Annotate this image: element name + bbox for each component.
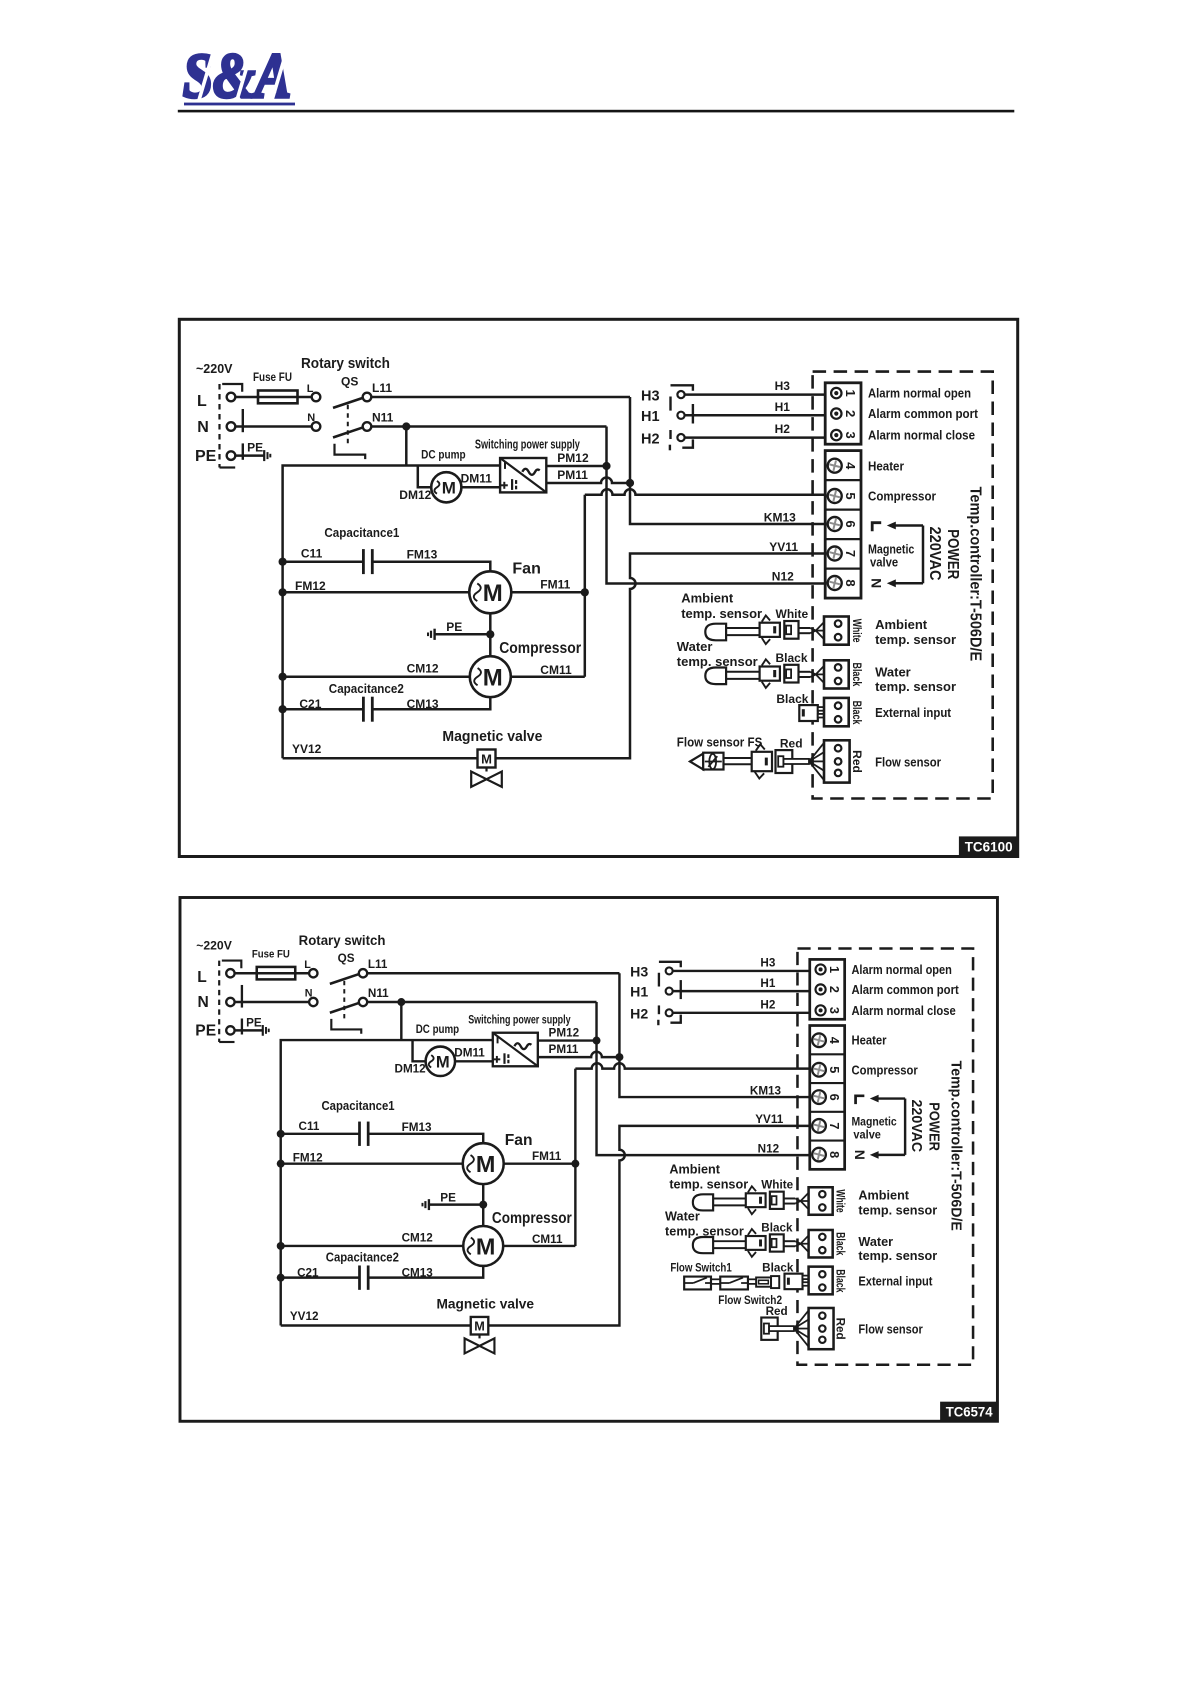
switch QS contact N11	[359, 998, 367, 1006]
terminal N	[226, 998, 234, 1006]
water plug wings	[762, 659, 770, 665]
svg-text:Temp.controller:T-506D/E: Temp.controller:T-506D/E	[967, 487, 984, 662]
alarm switch bracket bottom	[657, 1020, 659, 1025]
fuse FU	[258, 391, 298, 404]
svg-text:Red: Red	[780, 736, 803, 750]
svg-text:N12: N12	[758, 1142, 780, 1155]
connector boundary dashed	[218, 961, 220, 1042]
wire N11	[367, 1001, 596, 1004]
svg-text:~220V: ~220V	[196, 362, 233, 376]
svg-text:6: 6	[843, 520, 858, 527]
water plug	[746, 1236, 766, 1250]
svg-text:M: M	[476, 1233, 496, 1259]
svg-text:L11: L11	[368, 958, 388, 971]
wire YV12	[283, 757, 478, 760]
label TC6574	[940, 1402, 998, 1422]
wire compressor to terminal 5	[575, 1063, 809, 1068]
flow crimp	[809, 743, 824, 762]
wire YV11 terminal 7 to valve	[496, 554, 826, 759]
svg-text:PM11: PM11	[557, 468, 588, 482]
water wires	[799, 671, 811, 673]
svg-text:Red: Red	[850, 750, 864, 773]
wire FM12	[283, 591, 470, 594]
label TC6100	[959, 836, 1019, 856]
wire FM11	[504, 1162, 576, 1165]
wire PM12	[538, 1039, 597, 1042]
svg-text:PE: PE	[440, 1192, 456, 1205]
flow sensor FS impeller	[709, 754, 716, 769]
contact H1	[666, 988, 673, 995]
external plug	[799, 705, 818, 721]
schematic TC6574	[180, 898, 998, 1422]
wire H3	[673, 970, 810, 973]
alarm switch link a	[669, 397, 671, 411]
terminal 7	[828, 547, 842, 561]
svg-text:M: M	[483, 580, 503, 607]
external terminal block	[824, 698, 849, 726]
svg-text:CM11: CM11	[532, 1233, 563, 1246]
svg-text:temp. sensor: temp. sensor	[858, 1249, 937, 1263]
svg-text:Capacitance2: Capacitance2	[329, 681, 404, 696]
wire CM13	[372, 697, 490, 709]
svg-text:FM12: FM12	[293, 1151, 323, 1164]
svg-text:L: L	[304, 959, 311, 971]
flow terminal block	[824, 740, 850, 782]
svg-text:Magnetic: Magnetic	[868, 542, 914, 556]
wire H2	[673, 1012, 810, 1015]
wire L through fuse	[235, 396, 311, 399]
flow switch out wires	[748, 1278, 756, 1280]
svg-text:C21: C21	[297, 1267, 319, 1280]
svg-text:YV12: YV12	[290, 1310, 319, 1323]
svg-text:Alarm common port: Alarm common port	[868, 406, 979, 421]
contact H1	[677, 412, 684, 419]
svg-text:CM13: CM13	[407, 697, 439, 711]
switch QS actuator	[331, 1019, 361, 1034]
svg-text:4: 4	[843, 462, 858, 470]
wire fan to compressor	[482, 1184, 485, 1226]
wire FM12	[281, 1162, 463, 1165]
alarm switch link a	[658, 973, 660, 987]
wire L11	[371, 396, 630, 399]
wire FM11	[511, 591, 585, 594]
flow switch plug flat	[756, 1277, 771, 1286]
svg-text:H1: H1	[630, 984, 648, 1000]
junction C11	[279, 558, 287, 566]
frame border	[180, 898, 997, 1422]
svg-text:FM12: FM12	[295, 579, 326, 593]
svg-text:CM11: CM11	[540, 663, 572, 677]
svg-text:temp. sensor: temp. sensor	[669, 1178, 748, 1192]
ambient terminal block	[809, 1187, 833, 1214]
ambient plug wings	[762, 616, 770, 622]
switch QS contact L11	[363, 393, 372, 402]
motor fan	[469, 571, 511, 613]
terminal 3	[831, 430, 841, 440]
flow sensor FS stem	[724, 757, 752, 759]
terminal L	[226, 969, 234, 977]
wire pump branch	[413, 1040, 426, 1061]
svg-text:Alarm normal open: Alarm normal open	[851, 963, 951, 977]
wire pump branch	[418, 466, 431, 488]
svg-text:Flow sensor FS: Flow sensor FS	[677, 734, 763, 749]
svg-text:Heater: Heater	[868, 458, 904, 473]
svg-text:FM13: FM13	[402, 1121, 432, 1134]
connector bracket bottom	[220, 466, 236, 468]
alarm switch link b	[658, 1005, 660, 1014]
svg-text:DM11: DM11	[461, 471, 493, 485]
svg-text:L: L	[197, 393, 207, 410]
svg-text:Rotary switch: Rotary switch	[299, 932, 386, 948]
ambient socket	[784, 621, 798, 639]
switch QS contact N	[309, 998, 317, 1006]
svg-text:Compressor: Compressor	[868, 489, 936, 504]
svg-text:N11: N11	[372, 410, 394, 424]
flow crimp	[794, 1310, 809, 1328]
svg-text:External input: External input	[875, 705, 952, 720]
flow switch plug square	[771, 1276, 779, 1288]
contact H2	[677, 434, 684, 441]
svg-text:valve: valve	[853, 1128, 881, 1142]
svg-text:Flow Switch1: Flow Switch1	[670, 1262, 732, 1275]
svg-text:M: M	[476, 1151, 496, 1177]
arrow to terminal 8	[876, 1154, 905, 1157]
terminal 3	[816, 1005, 826, 1015]
external plug tabs	[818, 707, 824, 711]
junction N11	[397, 998, 405, 1006]
svg-text:H2: H2	[630, 1005, 648, 1021]
terminal PE	[227, 451, 236, 460]
water socket	[770, 1234, 784, 1251]
svg-text:FM11: FM11	[532, 1150, 562, 1163]
connector bracket top	[222, 961, 242, 969]
external terminal block	[809, 1267, 833, 1295]
wire fan to compressor	[489, 613, 492, 656]
corner mark L terminal 6	[872, 523, 881, 532]
ambient plug wings	[748, 1186, 756, 1192]
svg-text:Flow sensor: Flow sensor	[875, 754, 941, 769]
wire FM13	[368, 1134, 483, 1144]
svg-text:H3: H3	[760, 957, 775, 970]
svg-text:PE: PE	[195, 1022, 216, 1039]
svg-text:DM12: DM12	[399, 488, 431, 502]
terminal 5	[828, 489, 842, 503]
flow switch 2	[720, 1277, 748, 1290]
contact H3	[666, 967, 673, 974]
magnetic valve body	[485, 768, 487, 772]
svg-text:temp. sensor: temp. sensor	[858, 1203, 937, 1217]
junction PM12	[602, 462, 610, 470]
wire PE tap	[429, 1203, 483, 1206]
ambient wires	[784, 1197, 796, 1199]
svg-text:N: N	[197, 419, 209, 436]
svg-text:Black: Black	[761, 1221, 793, 1234]
terminal 1	[831, 388, 841, 398]
alarm switch tick	[692, 404, 694, 424]
wire H1	[673, 990, 810, 993]
wire N to switch	[235, 425, 311, 428]
water terminal block	[824, 660, 849, 688]
svg-text:TC6100: TC6100	[965, 839, 1013, 855]
svg-text:QS: QS	[338, 952, 355, 965]
power supply box	[493, 1033, 538, 1067]
wire N11-N12 to terminal 8	[597, 1002, 810, 1155]
svg-text:Flow sensor: Flow sensor	[858, 1322, 922, 1336]
switch QS actuator	[335, 444, 366, 459]
svg-text:Fan: Fan	[505, 1132, 533, 1149]
flow sensor FS tip	[690, 754, 703, 770]
svg-text:PM12: PM12	[557, 451, 589, 465]
svg-text:YV11: YV11	[755, 1113, 783, 1126]
svg-text:Alarm normal open: Alarm normal open	[868, 386, 971, 401]
svg-text:DM12: DM12	[395, 1063, 427, 1076]
wire FM13	[372, 562, 490, 572]
wire right rail	[574, 1069, 577, 1246]
pin bar PE	[241, 1018, 243, 1034]
capacitor C1	[362, 549, 365, 574]
terminal 6	[828, 517, 842, 531]
switch QS link dashed	[343, 981, 345, 1022]
svg-text:KM13: KM13	[750, 1084, 782, 1097]
controller dashed box	[797, 948, 973, 1364]
wire N11-N12 to terminal 8	[607, 427, 826, 584]
wire H3	[685, 393, 826, 396]
ground PE symbol	[262, 1025, 264, 1036]
terminal 1	[816, 964, 826, 974]
water sensor bulb	[693, 1237, 713, 1253]
capacitor C2	[358, 1265, 361, 1289]
magnetic valve body	[478, 1334, 480, 1338]
svg-text:White: White	[834, 1189, 847, 1213]
svg-text:L11: L11	[372, 381, 392, 395]
ambient plug	[760, 623, 780, 637]
wire YV11 terminal 7 to valve	[488, 1126, 809, 1326]
svg-text:White: White	[761, 1179, 793, 1192]
svg-text:220VAC: 220VAC	[908, 1100, 925, 1153]
contact H2	[666, 1009, 673, 1016]
svg-text:valve: valve	[870, 556, 898, 570]
ambient sensor stem	[713, 1197, 746, 1199]
wire PE stub	[235, 454, 264, 457]
wire pump to PSU	[461, 486, 500, 489]
svg-text:Water: Water	[875, 665, 911, 680]
junction PM12	[593, 1037, 601, 1045]
svg-text:temp. sensor: temp. sensor	[875, 679, 956, 694]
ambient sensor bulb	[705, 624, 726, 641]
water sensor stem	[726, 671, 760, 673]
terminal PE	[226, 1026, 234, 1034]
svg-text:1: 1	[827, 966, 841, 973]
junction N11	[402, 422, 410, 430]
ambient sensor stem	[726, 627, 760, 629]
alarm switch bracket bottom	[669, 445, 671, 451]
svg-text:Water: Water	[858, 1235, 893, 1249]
terminal 2	[831, 408, 841, 418]
wire C11	[283, 560, 364, 563]
junction CM12	[277, 1242, 285, 1250]
pin bar N	[241, 985, 243, 1008]
flow switch link	[711, 1278, 720, 1280]
switch QS link dashed	[347, 405, 349, 448]
svg-text:temp. sensor: temp. sensor	[681, 606, 762, 621]
power supply box	[500, 458, 546, 492]
svg-text:Red: Red	[834, 1318, 847, 1340]
flow socket slot	[784, 759, 810, 764]
motor DC pump	[426, 1047, 455, 1076]
svg-text:C11: C11	[301, 547, 323, 561]
svg-text:L: L	[197, 969, 207, 986]
svg-text:L: L	[307, 383, 314, 395]
flow socket slot	[769, 1326, 794, 1331]
wire PE stub	[235, 1029, 263, 1032]
switch QS contact L	[309, 969, 317, 977]
flow socket	[776, 750, 793, 773]
wire left rail	[283, 466, 500, 759]
junction PM11	[615, 1053, 623, 1061]
svg-text:CM13: CM13	[402, 1267, 434, 1280]
terminal block 1-3	[810, 959, 845, 1019]
svg-text:H3: H3	[630, 963, 648, 979]
svg-text:PE: PE	[246, 1016, 262, 1029]
svg-text:White: White	[850, 619, 864, 643]
svg-text:1: 1	[843, 389, 858, 396]
logo S&A	[183, 41, 291, 111]
svg-text:M: M	[436, 1052, 450, 1071]
svg-text:4: 4	[827, 1037, 841, 1044]
ambient terminal block	[824, 617, 849, 645]
alarm switch bracket top	[671, 385, 693, 391]
valve feed link	[904, 1099, 907, 1155]
water wires	[784, 1240, 796, 1242]
svg-text:Switching power supply: Switching power supply	[468, 1012, 571, 1026]
water sensor bulb	[705, 668, 726, 685]
svg-text:POWER: POWER	[944, 529, 961, 579]
svg-text:Ambient: Ambient	[875, 617, 928, 632]
water plug wings	[748, 1229, 756, 1235]
wire L11-KM13 to terminal 6	[630, 397, 825, 524]
wire right rail	[584, 495, 587, 677]
wire H2	[685, 436, 826, 439]
motor compressor	[470, 656, 511, 697]
water crimp	[795, 1241, 800, 1244]
svg-text:Ambient: Ambient	[858, 1188, 909, 1202]
wire CM13	[368, 1266, 483, 1278]
svg-text:Black: Black	[834, 1232, 847, 1256]
junction FM12	[279, 588, 287, 596]
logo underline	[184, 103, 295, 106]
flow switch 1	[684, 1277, 711, 1290]
svg-text:Capacitance1: Capacitance1	[321, 1099, 394, 1113]
svg-text:KM13: KM13	[764, 510, 796, 524]
svg-text:CM12: CM12	[402, 1232, 434, 1245]
junction PE	[486, 630, 494, 638]
svg-text:H2: H2	[641, 431, 660, 447]
terminal block 4-8	[825, 451, 861, 599]
water crimp	[810, 672, 816, 675]
valve feed link	[922, 526, 925, 584]
svg-text:Ambient: Ambient	[669, 1162, 720, 1176]
switch QS blade N	[330, 1003, 360, 1013]
svg-text:Compressor: Compressor	[851, 1063, 917, 1077]
connector bracket bottom	[219, 1041, 234, 1043]
svg-text:Magnetic valve: Magnetic valve	[442, 729, 542, 745]
junction FM11	[581, 588, 589, 596]
magnetic valve coil	[471, 1317, 489, 1335]
ground PE fan	[433, 629, 435, 640]
ambient wires	[799, 627, 811, 629]
svg-text:Capacitance2: Capacitance2	[326, 1251, 399, 1265]
header rule	[178, 110, 1015, 113]
svg-text:220VAC: 220VAC	[926, 527, 943, 581]
junction C11	[277, 1130, 285, 1138]
svg-text:DC pump: DC pump	[421, 448, 465, 462]
arrow to terminal 6	[893, 524, 923, 527]
switch QS blade N	[333, 427, 364, 437]
junction C21	[279, 705, 287, 713]
ambient crimp	[795, 1198, 800, 1201]
wire C11	[281, 1133, 360, 1136]
flow sensor plug wings	[756, 744, 765, 750]
external plug tabs	[803, 1276, 809, 1280]
svg-text:FM13: FM13	[407, 548, 438, 562]
terminal 8	[828, 576, 842, 590]
wire left rail	[281, 1040, 493, 1325]
svg-text:H1: H1	[775, 400, 791, 414]
svg-text:FM11: FM11	[540, 578, 570, 592]
water sensor stem	[713, 1240, 746, 1242]
motor fan	[463, 1143, 504, 1184]
wire CM12	[283, 675, 470, 678]
svg-text:Ambient: Ambient	[681, 590, 734, 605]
svg-text:YV12: YV12	[292, 742, 322, 756]
pin bar PE	[242, 443, 244, 459]
svg-text:H3: H3	[775, 379, 791, 393]
svg-text:N: N	[852, 1150, 867, 1160]
svg-text:Alarm normal close: Alarm normal close	[868, 428, 975, 443]
terminal 2	[816, 984, 826, 994]
svg-text:H1: H1	[760, 977, 775, 990]
svg-text:M: M	[483, 664, 503, 691]
svg-text:5: 5	[827, 1066, 841, 1073]
wire C21	[283, 708, 364, 711]
svg-text:3: 3	[843, 431, 858, 438]
svg-text:PM12: PM12	[549, 1026, 580, 1039]
wire C21	[281, 1276, 360, 1279]
svg-text:Alarm normal close: Alarm normal close	[851, 1004, 955, 1018]
wire compressor to terminal 5	[585, 489, 825, 495]
ambient sensor bulb	[693, 1194, 713, 1210]
wire N11 drop	[400, 1002, 403, 1040]
svg-text:Compressor: Compressor	[499, 640, 581, 657]
connector bracket top	[222, 384, 242, 392]
alarm switch bracket top	[659, 962, 681, 967]
svg-text:Temp.controller:T-506D/E: Temp.controller:T-506D/E	[948, 1061, 965, 1231]
svg-text:Black: Black	[834, 1269, 847, 1293]
power supply DC marks	[504, 462, 506, 469]
svg-text:PE: PE	[195, 448, 217, 465]
switch QS contact L	[312, 393, 321, 402]
wire N11 drop	[405, 427, 408, 466]
switch QS contact L11	[359, 969, 367, 977]
junction FM12	[277, 1160, 285, 1168]
ground PE fan	[428, 1199, 430, 1210]
svg-text:H2: H2	[775, 422, 791, 436]
wire L11	[367, 972, 619, 975]
wire YV12	[281, 1324, 471, 1327]
svg-text:DM11: DM11	[454, 1046, 485, 1059]
svg-text:PM11: PM11	[549, 1043, 579, 1056]
svg-text:Heater: Heater	[851, 1034, 886, 1048]
